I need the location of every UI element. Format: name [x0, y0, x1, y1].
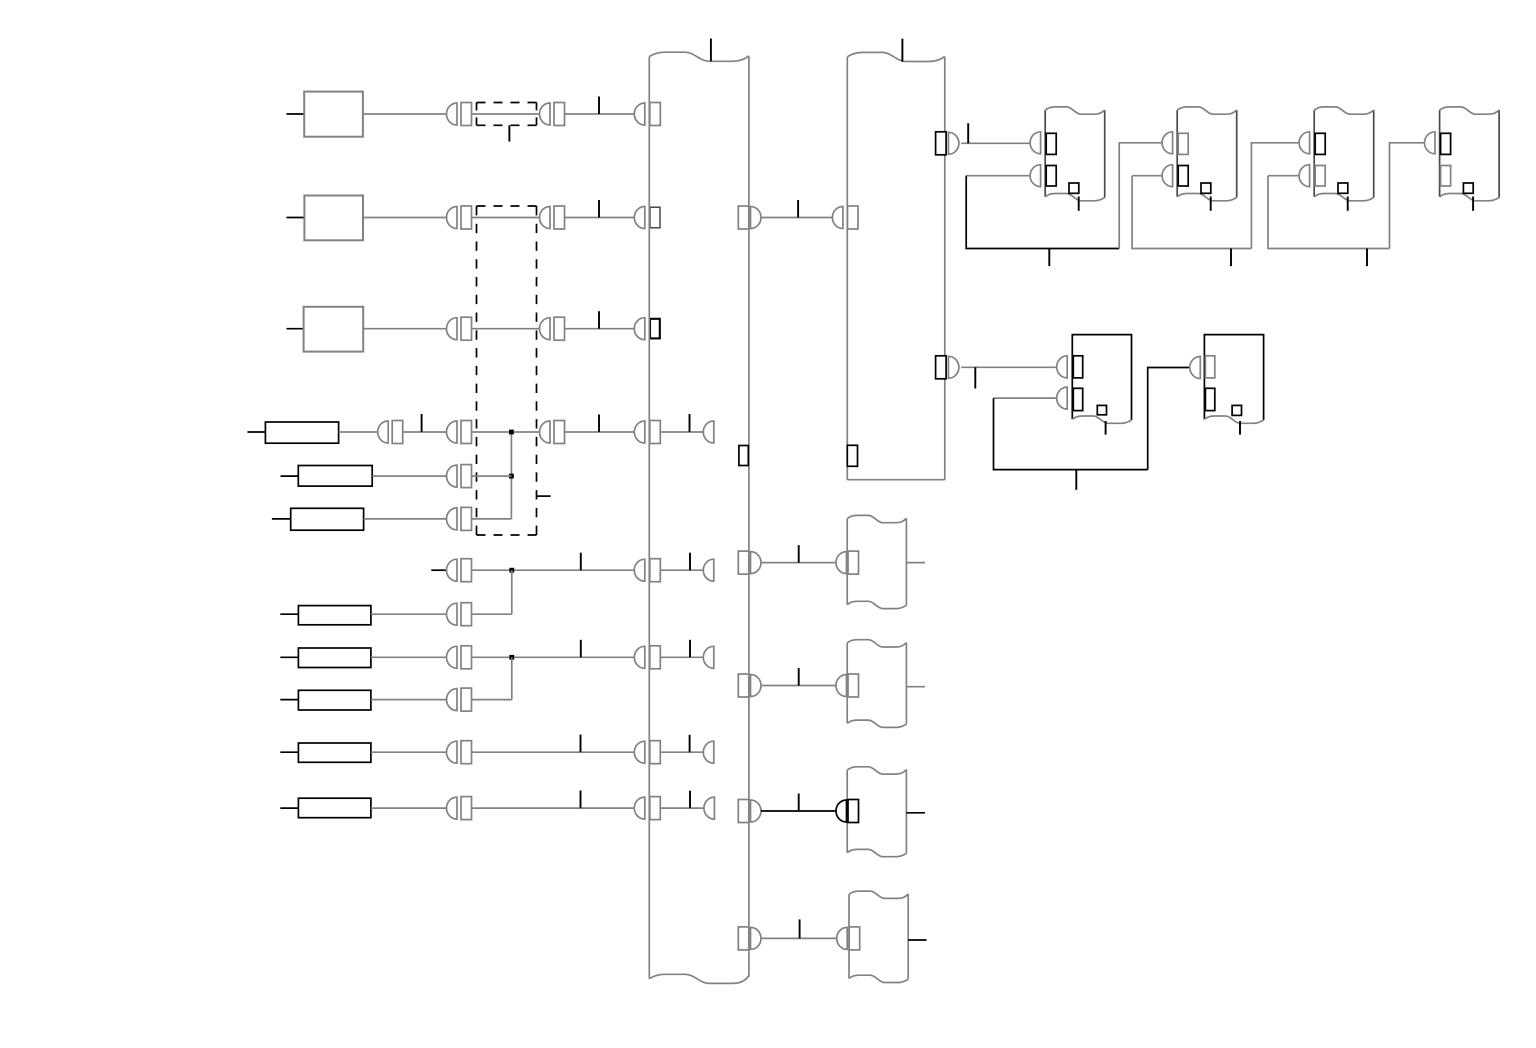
wire tag T7b: [689, 553, 691, 571]
unit H left edge: [1439, 110, 1441, 197]
wire W12c: [660, 807, 704, 809]
bus bar B2 left edge: [846, 57, 848, 480]
wire W5a: [372, 475, 446, 477]
unit E torn bottom: [1045, 194, 1105, 201]
resistor box R5: [298, 466, 372, 487]
loop2 wire a: [1132, 175, 1162, 177]
wire W4a: [339, 431, 378, 433]
spare plug P4: [703, 421, 714, 443]
spare plug P9: [703, 646, 714, 668]
terminal H3 lead: [1472, 197, 1474, 211]
connector X1c socket: [650, 103, 661, 126]
loop3 wire a: [1268, 175, 1299, 177]
panel D left edge: [848, 894, 850, 978]
loopIJ wire a: [994, 397, 1057, 399]
connector I1 plug: [1057, 356, 1068, 378]
connector X15b socket: [848, 674, 859, 697]
connector G2 plug: [1299, 165, 1309, 187]
panel D right edge: [907, 894, 909, 979]
stub lead row8: [280, 613, 298, 615]
connector X1a plug: [447, 103, 457, 125]
loop3 wire b: [1268, 176, 1390, 249]
connector F2 socket: [1178, 166, 1188, 187]
unit F left edge: [1176, 110, 1178, 197]
wire W14: [761, 562, 836, 564]
stub lead row1: [287, 113, 305, 115]
wire W8a: [371, 613, 447, 615]
bus bar B2 bottom edge: [847, 479, 945, 481]
wire W12b: [472, 807, 635, 809]
connector X11a socket: [461, 741, 472, 764]
connector X14a plug: [751, 552, 762, 574]
connector X18 socket: [936, 132, 947, 155]
connector X4c socket: [554, 421, 565, 444]
connector X7b plug: [634, 559, 645, 581]
bus bar B1 right edge: [748, 56, 750, 977]
cable shield S1: [477, 103, 537, 126]
connector X16a plug: [751, 800, 762, 822]
wire tag T9b: [689, 640, 691, 658]
bus B1 tag: [710, 39, 712, 62]
wire W15: [761, 685, 836, 687]
connector X14b plug: [836, 552, 847, 574]
bus bar B2 torn top: [847, 52, 945, 61]
stub lead row5: [281, 475, 299, 477]
connector X4a socket: [392, 421, 403, 444]
wire W2c: [565, 217, 635, 219]
connector X1b plug: [540, 103, 551, 125]
terminal E3 lead: [1078, 197, 1080, 211]
junction riser: [510, 432, 512, 519]
connector X7a plug: [447, 559, 457, 581]
connector X2b plug: [540, 207, 551, 229]
connector X12b plug: [634, 797, 645, 819]
bus bar B1 torn top: [649, 52, 749, 61]
connector X4b socket: [461, 421, 472, 444]
wire tag T7: [580, 553, 582, 571]
unit H torn top: [1440, 107, 1500, 114]
terminal E3: [1069, 183, 1079, 193]
wire W3b: [472, 328, 540, 330]
connector X10 socket: [461, 688, 472, 711]
unit G right edge: [1373, 110, 1375, 198]
wire W12a: [371, 807, 447, 809]
connector F2 plug: [1162, 165, 1172, 187]
wire W4c: [472, 431, 540, 433]
loopIJ wire c: [1148, 368, 1190, 470]
panel B torn bottom: [847, 720, 906, 727]
resistor box R10: [298, 690, 371, 710]
connector E2 socket: [1046, 166, 1056, 187]
terminal J3: [1232, 405, 1241, 415]
connector J2 socket: [1205, 388, 1214, 410]
device box U2: [304, 196, 363, 241]
wire W17: [761, 937, 837, 939]
wire tag T3: [598, 311, 600, 329]
spare plug P12: [704, 797, 714, 819]
connector X16b socket: [848, 800, 859, 823]
connector E1 plug: [1030, 132, 1041, 154]
stub lead row4: [247, 431, 265, 433]
wire tag T4b: [598, 415, 600, 433]
terminal I3 lead: [1105, 421, 1107, 435]
panel B stub: [906, 686, 925, 688]
connector X4b plug: [447, 421, 457, 443]
wire tag T9: [580, 640, 582, 658]
wire W11a: [371, 751, 447, 753]
connector X2a plug: [447, 207, 457, 229]
connector X17b socket: [849, 927, 860, 950]
terminal F3: [1201, 183, 1211, 193]
unit F right edge: [1236, 110, 1238, 198]
wire W3a: [363, 328, 446, 330]
connector X7a socket: [461, 559, 472, 582]
connector X3c socket: [650, 319, 660, 339]
connector X5 plug: [447, 465, 457, 487]
wire W6a: [364, 518, 447, 520]
connector X11b plug: [634, 741, 645, 763]
stub lead row7: [431, 569, 446, 571]
spare plug P7: [703, 559, 714, 581]
connector F1 socket: [1178, 133, 1188, 154]
connector X11b socket: [650, 741, 661, 764]
wire tag T11: [580, 735, 582, 753]
unit E torn top: [1045, 107, 1105, 114]
unit H torn bottom: [1440, 194, 1500, 201]
connector E1 socket: [1046, 133, 1056, 154]
connector X13a plug: [751, 207, 762, 229]
wire W16: [761, 810, 836, 812]
panel A torn bottom: [847, 601, 906, 608]
panel A torn top: [847, 515, 906, 522]
wire tag T1: [598, 97, 600, 115]
wire W10b: [472, 699, 512, 701]
connector X4d plug: [634, 421, 645, 443]
connector X1a socket: [461, 103, 472, 126]
cable shield S2: [477, 206, 537, 535]
connector X17b plug: [837, 927, 848, 949]
connector X17a socket: [738, 927, 749, 950]
unit I left edge: [1071, 335, 1073, 420]
connector X2c socket: [650, 207, 660, 228]
resistor box R11: [298, 743, 371, 762]
loop3 wire c: [1390, 143, 1425, 249]
wire tag T13: [797, 200, 799, 218]
terminal I3: [1097, 405, 1106, 414]
panel A stub: [906, 562, 925, 564]
connector X12b socket: [650, 797, 661, 820]
connector X9a plug: [447, 646, 457, 668]
stub lead row6: [272, 518, 291, 520]
wire W13: [761, 217, 832, 219]
stub lead row11: [280, 751, 298, 753]
wire W4e: [660, 431, 703, 433]
connector X7b socket: [650, 559, 661, 582]
unit J left edge: [1203, 335, 1205, 420]
wire W11b: [472, 751, 635, 753]
spare plug P11: [703, 741, 714, 763]
wire W8b: [472, 613, 512, 615]
panel C right edge: [905, 770, 907, 854]
connector X9b plug: [634, 646, 645, 668]
bus bar B1 left edge: [648, 57, 650, 979]
wire W3c: [565, 328, 635, 330]
connector X19 socket: [936, 356, 947, 379]
connector X5 socket: [461, 465, 472, 488]
loop3 tag: [1366, 249, 1368, 267]
connector X17a plug: [751, 927, 762, 949]
connector X1c plug: [634, 103, 645, 125]
terminal G3 lead: [1347, 197, 1349, 211]
panel C stub: [906, 812, 925, 814]
connector I1 socket: [1073, 356, 1082, 378]
device box U1: [304, 92, 363, 137]
unit G left edge: [1313, 110, 1315, 197]
panel D stub: [908, 939, 926, 941]
bus bar B2 right edge: [944, 57, 946, 480]
wire W5b: [472, 475, 512, 477]
wire tag T18: [967, 123, 969, 143]
shield drain S1: [508, 125, 510, 141]
connector X6 plug: [447, 508, 458, 530]
wire tag T16: [798, 794, 800, 812]
wire tag T2: [598, 200, 600, 218]
connector X13a socket: [738, 206, 749, 229]
connector X3b plug: [540, 318, 551, 340]
panel C torn bottom: [847, 849, 906, 856]
loopIJ wire b: [994, 398, 1148, 470]
terminal F3 lead: [1210, 197, 1212, 211]
stub lead row10: [280, 699, 298, 701]
wire W9a: [371, 656, 447, 658]
junction J3: [509, 568, 514, 573]
wire W19: [961, 366, 1056, 368]
connector G1 plug: [1299, 132, 1310, 154]
junction J2: [509, 474, 514, 479]
connector X2c plug: [634, 207, 645, 229]
unit E left edge: [1044, 110, 1046, 197]
connector X10 plug: [447, 689, 457, 711]
connector X6 socket: [461, 507, 472, 530]
stub lead row3: [287, 328, 304, 330]
connector X3b socket: [554, 317, 565, 340]
connector X9a socket: [461, 646, 472, 669]
connector X12a plug: [447, 797, 457, 819]
junction riser2: [511, 570, 513, 614]
loop2 wire c: [1251, 143, 1299, 249]
connector X3c plug: [634, 318, 645, 340]
unit G torn top: [1314, 107, 1374, 114]
wire W10a: [371, 699, 447, 701]
connector X15a socket: [738, 674, 749, 697]
connector X13b plug: [832, 207, 843, 229]
connector X11a plug: [447, 741, 457, 763]
connector X13b socket: [848, 206, 859, 229]
connector X16b plug: [836, 800, 847, 822]
wire W6b: [472, 518, 512, 520]
connector X16a socket: [738, 800, 749, 823]
connector X4c plug: [540, 421, 551, 443]
wire tag T12: [580, 791, 582, 809]
wire tag T14: [798, 545, 800, 563]
unit J top edge: [1204, 334, 1265, 336]
connector X14a socket: [738, 551, 749, 574]
reserve socket bus2: [847, 445, 857, 466]
resistor box R4: [265, 422, 338, 443]
connector X15a plug: [751, 675, 762, 697]
connector X2b socket: [554, 206, 565, 229]
wire tag T17: [799, 919, 801, 938]
connector X4d socket: [650, 421, 661, 444]
resistor box R12: [298, 798, 371, 818]
wire W2b: [472, 217, 540, 219]
junction J4: [509, 655, 514, 660]
stub lead row2: [287, 217, 305, 219]
connector X18 plug: [948, 132, 959, 154]
connector E2 plug: [1030, 165, 1040, 187]
connector F1 plug: [1162, 132, 1173, 154]
terminal G3: [1338, 183, 1348, 193]
wire tag T4a: [421, 414, 423, 432]
connector X8 plug: [447, 603, 457, 625]
connector X3a socket: [461, 317, 472, 340]
wire tag T12b: [689, 791, 691, 808]
junction J1: [509, 430, 514, 435]
bus bar B1 torn bottom: [649, 974, 749, 983]
wire W7a: [472, 569, 635, 571]
connector X15b plug: [836, 675, 847, 697]
panel B right edge: [905, 643, 907, 725]
loop1 wire b: [966, 176, 1119, 249]
unit J torn bottom: [1204, 416, 1263, 423]
connector I2 socket: [1073, 388, 1082, 410]
unit G torn bottom: [1314, 194, 1374, 201]
device box U3: [304, 307, 364, 352]
loop2 wire b: [1132, 176, 1251, 249]
wire W7b: [660, 569, 703, 571]
wire tag T4c: [689, 414, 691, 432]
unit I right edge: [1131, 335, 1133, 421]
unit F torn bottom: [1177, 194, 1237, 201]
connector J1 socket: [1205, 356, 1214, 378]
panel C left edge: [846, 770, 848, 853]
connector X1b socket: [554, 103, 565, 126]
loop1 wire c: [1119, 143, 1162, 249]
connector H1 plug: [1425, 132, 1436, 154]
connector X12a socket: [461, 797, 472, 820]
unit H right edge: [1498, 110, 1500, 198]
connector X4a plug: [378, 421, 388, 443]
wire W11c: [660, 751, 703, 753]
wire W1a: [363, 113, 447, 115]
connector X2a socket: [461, 206, 472, 229]
unit E right edge: [1104, 110, 1106, 198]
resistor box R6: [291, 508, 364, 530]
unit J right edge: [1263, 335, 1265, 421]
connector H2 socket: [1441, 166, 1451, 187]
wire W2a: [363, 217, 447, 219]
junction riser3: [511, 657, 513, 699]
panel C torn top: [847, 767, 906, 774]
unit I top edge: [1072, 334, 1133, 336]
terminal H3: [1463, 183, 1473, 193]
reserve socket bus1: [739, 446, 748, 466]
wire tag T15: [798, 668, 800, 686]
wire tag T11b: [689, 735, 691, 752]
connector X14b socket: [848, 551, 859, 574]
wire W4d: [565, 431, 635, 433]
shield drain S2: [537, 495, 551, 497]
stub lead row9: [280, 656, 298, 658]
panel D torn top: [849, 891, 908, 898]
connector X19 plug: [948, 356, 959, 378]
wire W1c: [565, 113, 635, 115]
panel A left edge: [846, 519, 848, 605]
resistor box R8: [298, 606, 371, 625]
connector H1 socket: [1441, 133, 1451, 154]
stub lead row12: [280, 807, 298, 809]
loop2 tag: [1230, 249, 1232, 267]
loop1 wire a: [966, 175, 1030, 177]
connector G2 socket: [1315, 166, 1325, 187]
loop1 tag: [1048, 249, 1050, 267]
panel A right edge: [905, 518, 907, 605]
unit F torn top: [1177, 107, 1237, 114]
wire W4b: [402, 431, 446, 433]
resistor box R9: [298, 648, 371, 668]
terminal J3 lead: [1239, 421, 1241, 435]
connector I2 plug: [1057, 387, 1068, 409]
connector J1 plug: [1190, 357, 1201, 379]
wire W1b: [472, 113, 540, 115]
wire W9c: [660, 656, 703, 658]
wire tag T19: [974, 367, 976, 388]
unit I torn bottom: [1072, 416, 1131, 423]
panel B torn top: [847, 640, 906, 647]
wire W9b: [472, 656, 635, 658]
panel D torn bottom: [849, 975, 908, 982]
connector X8 socket: [461, 603, 472, 626]
connector X9b socket: [650, 646, 661, 669]
bus B2 tag: [901, 39, 903, 62]
loopIJ tag: [1075, 470, 1077, 490]
wire W18: [961, 142, 1030, 144]
connector G1 socket: [1315, 133, 1325, 154]
panel B left edge: [846, 643, 848, 723]
connector X3a plug: [447, 318, 457, 340]
